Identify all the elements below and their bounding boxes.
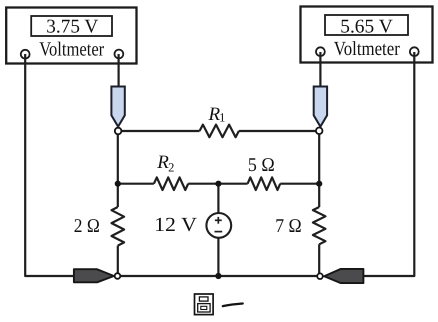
svg-text:12 V: 12 V xyxy=(154,214,197,236)
svg-text:3.75 V: 3.75 V xyxy=(46,16,98,37)
svg-text:Voltmeter: Voltmeter xyxy=(334,38,400,60)
svg-text:2: 2 xyxy=(168,160,174,174)
svg-text:7 Ω: 7 Ω xyxy=(275,216,301,237)
svg-text:2 Ω: 2 Ω xyxy=(74,216,100,237)
svg-text:5.65 V: 5.65 V xyxy=(340,17,393,38)
svg-text:1: 1 xyxy=(219,110,225,124)
svg-text:Voltmeter: Voltmeter xyxy=(39,39,104,61)
svg-text:5 Ω: 5 Ω xyxy=(248,155,275,176)
